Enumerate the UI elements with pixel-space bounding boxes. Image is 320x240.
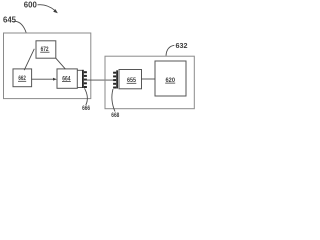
- svg-text:668: 668: [111, 112, 119, 119]
- wire between connectors (664 to 655): [84, 79, 113, 81]
- leader line from 668: [112, 89, 115, 112]
- wire 662 to 664 with arrowhead: [32, 78, 55, 80]
- block 672: [36, 41, 56, 58]
- svg-text:600: 600: [24, 0, 37, 10]
- leader line from 645: [14, 21, 27, 33]
- svg-text:666: 666: [82, 105, 90, 112]
- block 662: [13, 69, 32, 87]
- leader line from 632: [166, 45, 174, 56]
- wire 672 to 662 (diagonal): [24, 49, 34, 70]
- svg-text:645: 645: [3, 16, 17, 25]
- block 620: [155, 61, 186, 96]
- connector 666 (pins on right of 664): [82, 70, 87, 88]
- block 664: [57, 69, 77, 88]
- enclosure box 645: [4, 33, 91, 99]
- svg-text:632: 632: [176, 41, 188, 50]
- enclosure box 632: [105, 56, 194, 108]
- wire 655 to 620: [142, 78, 156, 80]
- wire 672 to 664 (diagonal): [56, 58, 66, 69]
- leader arrow from 600: [38, 5, 56, 11]
- connector 668 (pins on left of 655): [113, 70, 118, 88]
- leader line from 666: [85, 88, 88, 105]
- block 655: [119, 70, 142, 89]
